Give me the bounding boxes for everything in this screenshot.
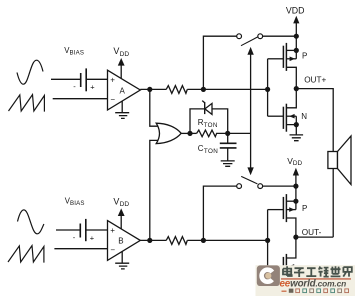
node: switch B tap junction xyxy=(201,238,206,243)
svg-text:N: N xyxy=(301,112,307,121)
wire: op-amp A output xyxy=(140,88,166,90)
node: VDD B junction xyxy=(293,184,298,189)
node: OUT+ xyxy=(294,86,299,91)
node: switch A tap junction xyxy=(201,87,206,92)
OR gate U2 xyxy=(156,123,181,143)
svg-text:+: + xyxy=(90,83,95,92)
transistor Q2 NMOS N (top) xyxy=(268,89,308,135)
svg-text:+: + xyxy=(90,234,95,243)
ground NMOS N bottom xyxy=(289,285,303,291)
node: op-amp A output junction xyxy=(147,87,152,92)
sine wave source A xyxy=(17,60,43,84)
sawtooth wave source A xyxy=(9,95,45,112)
svg-text:OUT-: OUT- xyxy=(302,228,322,237)
svg-text:+: + xyxy=(110,226,115,235)
sine wave source B xyxy=(18,210,44,234)
battery VBIAS B xyxy=(80,219,86,241)
node: OUT- xyxy=(293,235,298,240)
svg-text:A: A xyxy=(120,86,126,95)
node: RTON/CTON junction xyxy=(225,131,230,136)
svg-text:V: V xyxy=(113,46,119,56)
ground op-amp B xyxy=(115,251,129,269)
svg-text:TON: TON xyxy=(204,148,218,155)
svg-text:eeworld.com.cn: eeworld.com.cn xyxy=(280,278,347,289)
OR gate input wire 2 xyxy=(150,140,160,240)
wire: op-amp B output xyxy=(140,239,166,241)
wire: gate drive A to gate bus xyxy=(187,88,267,90)
gate bus A xyxy=(267,59,269,116)
svg-text:−: − xyxy=(110,95,115,104)
switch S2 xyxy=(237,184,242,189)
op-amp A xyxy=(108,70,141,110)
svg-text:OUT+: OUT+ xyxy=(304,76,326,85)
diode D1 xyxy=(190,101,228,134)
VDD supply top xyxy=(295,23,297,51)
wire: OUT+ to speaker xyxy=(296,89,333,152)
wire: input A non-inverting xyxy=(51,78,108,80)
speaker LS1 xyxy=(328,136,351,185)
VDD supply bottom xyxy=(295,175,297,201)
ground NMOS N top xyxy=(290,135,304,141)
control line with arrows to switches xyxy=(250,54,252,168)
transistor Q4 NMOS N (bottom) xyxy=(268,237,299,285)
wire: input A inverting xyxy=(53,98,108,100)
transistor Q1 PMOS P (top) xyxy=(268,43,308,89)
svg-text:DD: DD xyxy=(120,201,130,208)
node: op-amp B output junction xyxy=(147,238,152,243)
resistor RTON xyxy=(197,130,228,137)
switch S1 xyxy=(237,34,242,39)
svg-text:TON: TON xyxy=(204,122,218,129)
wire: OR output xyxy=(181,132,196,134)
svg-text:V: V xyxy=(113,196,119,206)
node: gate bus B junction xyxy=(265,238,270,243)
svg-text:−: − xyxy=(110,246,115,255)
ground op-amp A xyxy=(115,101,129,118)
wire: input B non-inverting xyxy=(56,229,108,231)
battery VBIAS A xyxy=(81,68,87,91)
svg-text:DD: DD xyxy=(293,160,303,167)
wire: switch B right lead xyxy=(263,185,296,187)
resistor R2 (gate drive B) xyxy=(166,237,187,245)
wire: OUT- to speaker xyxy=(296,169,333,238)
op-amp B xyxy=(108,221,141,261)
capacitor CTON xyxy=(220,133,237,161)
transistor Q3 PMOS P (bottom) xyxy=(268,194,308,237)
VDD arrow op-amp B xyxy=(120,215,122,229)
svg-text:VDD: VDD xyxy=(286,5,305,15)
VDD arrow op-amp A xyxy=(120,65,122,79)
svg-text:BIAS: BIAS xyxy=(70,50,85,57)
wire: switch A right lead xyxy=(263,35,297,37)
ground CTON xyxy=(221,161,235,166)
wire: input B inverting xyxy=(54,248,107,250)
wire: gate drive B to gate bus xyxy=(187,239,267,241)
gate bus B xyxy=(267,210,269,267)
node: VDD A junction xyxy=(294,34,299,39)
svg-text:P: P xyxy=(302,52,307,61)
watermark logo xyxy=(256,265,355,296)
wire: switch A left lead xyxy=(203,36,236,89)
svg-text:DD: DD xyxy=(120,51,130,58)
node: gate bus A junction xyxy=(265,87,270,92)
svg-text:BIAS: BIAS xyxy=(70,200,85,207)
svg-text:C: C xyxy=(198,144,204,153)
sawtooth wave source B xyxy=(8,246,44,263)
node: OR output junction xyxy=(187,131,192,136)
svg-text:+: + xyxy=(110,75,115,84)
wire: timing node to control line xyxy=(228,132,251,134)
svg-text:B: B xyxy=(118,237,123,246)
OR gate input wire 1 xyxy=(150,89,160,126)
resistor R1 (gate drive A) xyxy=(166,86,187,94)
wire: switch B left lead xyxy=(203,186,236,240)
svg-text:P: P xyxy=(302,204,307,213)
